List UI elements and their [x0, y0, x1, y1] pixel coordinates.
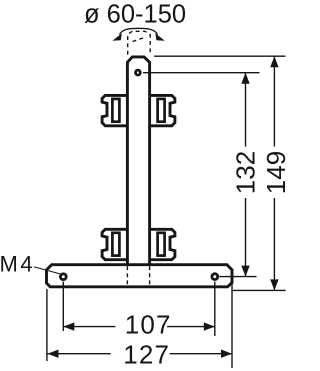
dimension 127 line	[48, 353, 233, 355]
arrow 127 right	[221, 350, 232, 358]
dimension 107 line	[63, 326, 215, 328]
top hole	[135, 70, 140, 75]
rotation arrowhead left	[112, 33, 121, 40]
extension line top hole	[143, 72, 260, 74]
extension line top (bar top)	[154, 55, 286, 57]
hidden bar lines in base (dashed)	[127, 266, 149, 285]
base hole right	[212, 274, 218, 280]
extension line below left hole	[62, 282, 64, 331]
extension line below base right	[231, 284, 233, 369]
extension line right hole (132 bottom)	[219, 276, 256, 278]
base plate	[47, 265, 233, 287]
vertical bar	[127, 57, 149, 266]
extension line below base left	[46, 289, 48, 361]
svg-text:107: 107	[125, 310, 172, 340]
svg-text:127: 127	[123, 339, 170, 369]
bracket clamp bottom-right	[150, 229, 175, 259]
svg-text:ø 60-150: ø 60-150	[84, 1, 186, 29]
arrow 107 left	[63, 322, 74, 330]
arrow 132 bottom	[241, 266, 249, 277]
rotation arc arrow	[120, 28, 158, 35]
leader M4	[34, 267, 60, 274]
dashed rotated-position outline	[128, 31, 151, 54]
bracket clamp top-left	[102, 95, 127, 125]
bracket clamp top-right	[150, 95, 175, 125]
svg-text:149: 149	[261, 151, 288, 194]
dimension 149 line	[273, 56, 275, 290]
bracket clamp bottom-left	[102, 229, 127, 259]
arrow 149 bottom	[270, 279, 278, 290]
svg-text:132: 132	[230, 151, 260, 194]
arrow 132 top	[241, 73, 249, 84]
arrow 107 right	[204, 322, 215, 330]
arrow 127 left	[48, 350, 59, 358]
extension line below right hole	[214, 282, 216, 337]
dimension 132 line	[245, 73, 247, 277]
base hole left	[60, 274, 66, 280]
rotation arrowhead right	[155, 33, 164, 40]
svg-text:M4: M4	[0, 252, 35, 277]
arrow 149 top	[270, 56, 278, 67]
extension line base bottom (149 bottom)	[233, 289, 286, 291]
